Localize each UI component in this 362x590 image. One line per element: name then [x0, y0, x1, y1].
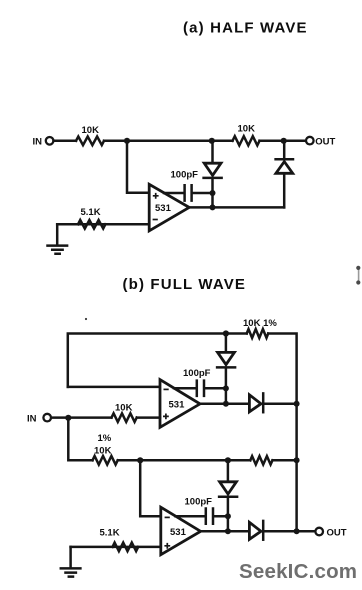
svg-text:IN: IN [33, 137, 43, 148]
node right rail bottom junction [294, 528, 300, 534]
svg-text:(b) FULL WAVE: (b) FULL WAVE [123, 276, 247, 293]
resistor R3 5.1K [78, 220, 105, 229]
svg-text:100pF: 100pF [185, 496, 213, 507]
wire stage2 summing line [118, 459, 251, 462]
diode D2 (pointing up) [283, 174, 286, 208]
wire to ground [69, 547, 72, 568]
svg-text:531: 531 [170, 527, 187, 538]
node cap junction on D5 line [225, 513, 231, 519]
node cap junction on D1 line [210, 190, 216, 196]
diode D5 (pointing down) [220, 482, 237, 494]
scan artifact bracket [358, 268, 360, 282]
wire inverting input with R from ground [57, 223, 149, 226]
wire A2 output [201, 530, 250, 533]
diode D4 (pointing right) [249, 395, 261, 412]
wire rail corner to right rail [268, 334, 296, 532]
wire junction down to + input [127, 141, 149, 193]
resistor R10 5.1K [113, 543, 139, 552]
terminal OUT (full wave) [315, 528, 323, 536]
resistor R6 10K 1% [247, 329, 269, 338]
diode D1 (pointing down) [204, 163, 221, 175]
svg-text:10K: 10K [238, 123, 256, 134]
node cap junction on D3 line [223, 385, 229, 391]
svg-text:1%: 1% [98, 433, 112, 444]
node junction input [124, 138, 130, 144]
wire summing node down to A2 - input [140, 460, 161, 516]
node output junction on D3 line [223, 401, 229, 407]
svg-text:OUT: OUT [327, 527, 347, 538]
terminal OUT (half wave) [306, 137, 314, 145]
node rail junction at D3 [223, 330, 229, 336]
node right rail junction stage2 feedback [294, 457, 300, 463]
svg-text:10K: 10K [82, 125, 100, 136]
node rail junction at D2 [281, 138, 287, 144]
wire rail down to diode D3 [225, 334, 228, 353]
wire to ground [56, 224, 59, 245]
wire IN to junction [51, 416, 111, 419]
wire top rail left segment [104, 140, 233, 143]
wire R7 to + input [137, 416, 160, 419]
wire inverting input A1 [68, 386, 160, 389]
svg-text:100pF: 100pF [183, 368, 211, 379]
svg-text:531: 531 [155, 203, 172, 214]
svg-text:SeekIC.com: SeekIC.com [239, 560, 357, 583]
diode D3 (pointing down) [218, 352, 235, 364]
node rail junction at D1 [209, 138, 215, 144]
wire stage1 feedback top rail [68, 334, 247, 387]
node input junction [65, 415, 71, 421]
terminal IN (half wave) [46, 137, 54, 145]
ground GND1 [48, 246, 68, 254]
node right rail junction stage1 [294, 401, 300, 407]
scan speck [85, 318, 87, 320]
svg-text:5.1K: 5.1K [81, 207, 101, 218]
ground GND2 [61, 568, 81, 576]
svg-text:5.1K: 5.1K [100, 527, 120, 538]
wire IN to R1 [54, 140, 76, 143]
wire A1 output [200, 403, 249, 406]
resistor R2 10K [233, 136, 260, 145]
op-amp U3 531 [161, 507, 201, 555]
wire D5 top [227, 460, 230, 481]
terminal IN (full wave) [43, 414, 51, 422]
op-amp U1 531 [149, 184, 189, 231]
svg-text:(a) HALF WAVE: (a) HALF WAVE [183, 19, 308, 36]
op-amp U2 531 [160, 380, 200, 428]
node output junction on D5 line [225, 528, 231, 534]
svg-text:100pF: 100pF [171, 169, 199, 180]
diode D6 (pointing right) [249, 522, 261, 539]
resistor R9 feedback [250, 456, 272, 464]
resistor R1 10K [76, 137, 104, 146]
wire rail to diode D1 [211, 141, 214, 163]
wire R9 to right rail [273, 459, 297, 462]
resistor R8 10K 1% [93, 456, 118, 465]
svg-text:OUT: OUT [315, 136, 335, 147]
svg-text:531: 531 [169, 400, 186, 411]
svg-text:10K 1%: 10K 1% [243, 318, 277, 329]
node D5 top junction [225, 457, 231, 463]
wire op-amp output [189, 206, 284, 209]
resistor R7 10K [112, 413, 137, 422]
wire + input from ground via 5.1K [71, 546, 161, 549]
node summing junction [137, 457, 143, 463]
svg-text:10K: 10K [94, 445, 112, 456]
wire R2 to OUT [260, 140, 306, 143]
wire IN junction down to stage2 line [68, 418, 92, 461]
svg-text:10K: 10K [115, 403, 133, 414]
svg-text:IN: IN [27, 413, 37, 424]
node output junction on D1 line [210, 204, 216, 210]
